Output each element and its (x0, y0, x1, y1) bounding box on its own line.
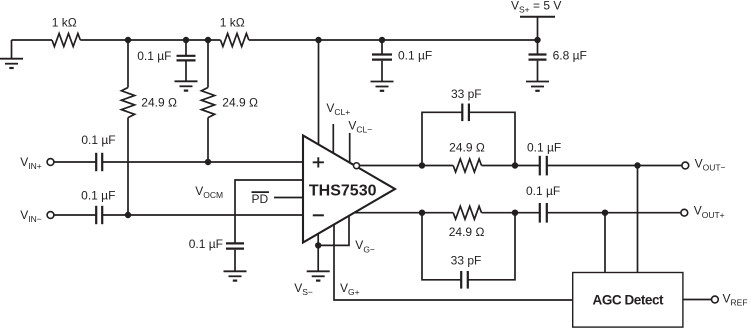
capacitor 0.1uF (out- coupling) (539, 156, 541, 176)
ground (Vs- ground) (307, 271, 330, 280)
terminal Vref (712, 296, 719, 303)
wire (stub to 24.9 ohm right) (207, 40, 209, 88)
svg-text:0.1 µF: 0.1 µF (398, 49, 432, 63)
node (rail / second bypass) (379, 37, 385, 43)
svg-text:0.1 µF: 0.1 µF (526, 184, 560, 198)
node (Vout- / AGC tap) (634, 162, 640, 168)
wire (Vin+ terminal to coupling cap) (54, 161, 96, 163)
svg-text:PD: PD (252, 192, 269, 206)
resistor 1 kOhm (right) (221, 34, 249, 47)
svg-text:VOCM: VOCM (195, 184, 223, 200)
terminal circles (47, 159, 718, 303)
wire (out- to first node) (360, 165, 454, 167)
capacitor 33 pF (bottom) (460, 271, 462, 289)
wire (cap to Vout+ terminal) (547, 212, 681, 214)
svg-text:VREF: VREF (723, 291, 748, 307)
wire (cap to amp + input) (102, 161, 303, 163)
svg-text:0.1 µF: 0.1 µF (81, 133, 115, 147)
node (out- / 33pF left) (419, 162, 425, 168)
svg-text:VIN−: VIN− (20, 208, 42, 224)
capacitor 0.1uF (Vocm decoupling) (226, 242, 244, 244)
svg-text:VS+ = 5 V: VS+ = 5 V (511, 0, 561, 15)
svg-text:0.1 µF: 0.1 µF (189, 237, 223, 251)
PD overline (252, 191, 270, 193)
svg-text:VIN+: VIN+ (20, 155, 42, 171)
minus input symbol (313, 214, 324, 216)
wire (cap to ground) (381, 61, 383, 82)
svg-text:24.9 Ω: 24.9 Ω (141, 96, 177, 110)
svg-text:24.9 Ω: 24.9 Ω (449, 141, 485, 155)
capacitor 0.1 uF (second bypass) (372, 53, 392, 55)
svg-text:0.1 µF: 0.1 µF (81, 189, 115, 203)
svg-text:VCL+: VCL+ (326, 101, 350, 117)
wire (Vocm cap to ground) (234, 250, 236, 272)
svg-text:VCL−: VCL− (348, 119, 372, 135)
wire (out+ to first node) (355, 212, 454, 214)
output bubble (inverting output) (354, 163, 360, 169)
svg-text:6.8 µF: 6.8 µF (553, 49, 587, 63)
wire (Vg+ pin down to AGC Detect) (334, 225, 573, 300)
node (Vs- / Vg-) (315, 242, 321, 248)
resistor 24.9 Ohm (right vertical) (201, 88, 214, 118)
wire (Vs+ to rail) (537, 17, 539, 40)
capacitor 0.1uF (Vin- coupling) (95, 206, 97, 224)
terminal Vout- (682, 162, 689, 169)
node (rail / 24.9 left) (125, 37, 131, 43)
resistor R 1 kOhm (left) (52, 34, 80, 47)
wire (top rail right segment) (249, 39, 538, 41)
resistor 24.9 Ohm (left vertical) (121, 88, 134, 118)
wire (top rail left segment) (12, 39, 53, 41)
wire (Vout+ node down to AGC Detect) (604, 213, 606, 273)
svg-text:VOUT+: VOUT+ (694, 204, 725, 220)
wire (top rail between resistors) (80, 39, 220, 41)
svg-text:33 pF: 33 pF (451, 253, 482, 267)
resistor 24.9 Ohm (out+ series) (453, 206, 481, 219)
wire (cap to Vout- terminal) (547, 165, 682, 167)
ground (top-left supply return) (0, 40, 23, 68)
node (rail / amp supply) (315, 37, 321, 43)
plus input symbol (313, 157, 324, 167)
node (Vin- / 24.9 left) (125, 212, 131, 218)
wire (33pF top loop) (422, 112, 515, 165)
ground (under 0.1uF bypass) (175, 81, 198, 90)
wire (cap to ground) (537, 61, 539, 82)
capacitor 0.1uF (out+ coupling) (539, 203, 541, 223)
node (out+ / 33pF right) (512, 210, 518, 216)
node (rail / Vs+) (534, 37, 540, 43)
wire (Vout- node down to AGC Detect) (637, 166, 639, 273)
wire (Vg- pin down and over to Vs- node) (318, 216, 349, 245)
wire (stub to second bypass cap) (381, 40, 383, 54)
wire (rail junction to 6.8uF cap) (537, 40, 539, 54)
capacitor 6.8 uF (529, 53, 547, 55)
wire (out+ resistor to coupling cap) (482, 212, 540, 214)
svg-text:THS7530: THS7530 (309, 183, 377, 200)
node (rail / bypass cap) (183, 37, 189, 43)
capacitor 0.1uF (top rail bypass) (177, 55, 196, 57)
wire (cap to amp - input) (102, 214, 303, 216)
wire (AGC to Vref terminal) (683, 299, 712, 301)
svg-text:1 kΩ: 1 kΩ (52, 16, 77, 30)
wire (Vcl+ pin stub) (332, 124, 334, 153)
wire (stub to 24.9 ohm left, continues to Vin- line) (127, 40, 129, 88)
wire (cap to ground) (185, 62, 187, 82)
AGC Detect block (573, 273, 683, 328)
terminal Vout+ (681, 209, 688, 216)
svg-text:VS−: VS− (294, 281, 313, 297)
ground (under Vocm cap) (224, 271, 247, 280)
svg-text:VG+: VG+ (340, 281, 360, 297)
node (out- / 33pF right) (512, 162, 518, 168)
op-amp U1 THS7530 triangle (303, 136, 395, 243)
svg-text:VG−: VG− (355, 238, 375, 254)
node (rail / 24.9 right) (205, 37, 211, 43)
ground (under 6.8uF) (526, 82, 549, 91)
wire (stub to bypass cap 0.1uF) (185, 40, 187, 55)
wire (Vs- pin to ground) (317, 234, 319, 272)
power Vs+ supply bar (520, 16, 555, 18)
svg-text:0.1 µF: 0.1 µF (527, 141, 561, 155)
svg-text:24.9 Ω: 24.9 Ω (222, 96, 258, 110)
wire (PD pin) (274, 197, 303, 199)
svg-text:33 pF: 33 pF (451, 87, 482, 101)
wire (out- resistor to coupling cap) (482, 165, 540, 167)
wire (from resistor down crossing Vin+ to Vin- junction) (127, 118, 129, 215)
svg-text:0.1 µF: 0.1 µF (137, 49, 171, 63)
wire (Vin- terminal to coupling cap) (54, 214, 96, 216)
svg-text:VOUT−: VOUT− (695, 157, 726, 173)
wire (Vcl- pin stub) (349, 133, 351, 162)
svg-text:1 kΩ: 1 kΩ (220, 16, 245, 30)
resistor 24.9 Ohm (out- series) (453, 159, 481, 172)
wire (from resistor down to Vin+ junction) (207, 118, 209, 162)
wire (Vocm pin L-wire) (235, 180, 303, 243)
node (Vout+ / AGC tap) (602, 210, 608, 216)
svg-text:AGC Detect: AGC Detect (593, 292, 664, 307)
ground (under second 0.1uF) (371, 82, 394, 91)
terminal Vin+ (47, 159, 54, 166)
svg-text:24.9 Ω: 24.9 Ω (449, 225, 485, 239)
node (Vin+ / 24.9 right) (205, 159, 211, 165)
wire (33pF bottom loop) (422, 213, 515, 280)
terminal Vin- (47, 212, 54, 219)
capacitor 0.1uF (Vin+ coupling) (95, 153, 97, 171)
wire (supply stub from rail into amplifier top) (318, 40, 320, 144)
capacitor 33 pF (top) (461, 104, 463, 122)
node (out+ / 33pF left) (419, 210, 425, 216)
